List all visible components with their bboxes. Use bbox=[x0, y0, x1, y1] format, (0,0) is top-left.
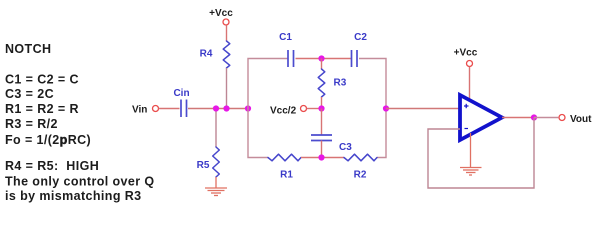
wire +Vcc to R4 bbox=[226, 25, 228, 41]
node feedback junction bbox=[531, 114, 537, 120]
wire C1 to node A bbox=[296, 58, 352, 60]
svg-text:C1: C1 bbox=[279, 32, 292, 43]
svg-text:Cin: Cin bbox=[173, 88, 189, 99]
wire right edge lower bbox=[377, 109, 386, 158]
ground (R5) bbox=[205, 188, 227, 196]
svg-text:R4: R4 bbox=[200, 49, 213, 60]
wire node A to R3 bbox=[321, 59, 323, 70]
wire C3 to node B bbox=[321, 141, 323, 158]
svg-text:The only control over Q: The only control over Q bbox=[5, 175, 155, 189]
wire R4 to node bbox=[226, 68, 228, 109]
svg-text:is by mismatching R3: is by mismatching R3 bbox=[5, 189, 142, 203]
svg-text:R1: R1 bbox=[280, 169, 293, 180]
svg-text:NOTCH: NOTCH bbox=[5, 42, 51, 56]
svg-text:C3 = 2C: C3 = 2C bbox=[5, 87, 54, 101]
svg-text:R5: R5 bbox=[197, 160, 210, 171]
resistor R2 bbox=[344, 154, 377, 161]
terminal Vout bbox=[559, 115, 565, 121]
resistor R4 bbox=[223, 41, 230, 68]
node junction at twin-T left bbox=[245, 105, 251, 111]
wire node to Vout bbox=[534, 117, 558, 119]
op-amp plus input mark bbox=[464, 104, 469, 108]
svg-text:R3 = R/2: R3 = R/2 bbox=[5, 117, 58, 131]
svg-text:Vout: Vout bbox=[570, 114, 592, 125]
terminal +Vcc (R4) bbox=[223, 19, 229, 25]
wire twin-T left edge bbox=[248, 59, 288, 109]
svg-text:R4 = R5: HIGH: R4 = R5: HIGH bbox=[5, 159, 99, 173]
wire Vin to Cin bbox=[159, 108, 180, 110]
capacitor C1 bbox=[288, 50, 294, 67]
capacitor C2 bbox=[352, 50, 358, 67]
node junction at R5 bbox=[213, 105, 219, 111]
wire +Vcc to op-amp top bbox=[469, 67, 471, 100]
wire R5 drop bbox=[215, 109, 217, 148]
svg-text:Fo = 1/(2pRC): Fo = 1/(2pRC) bbox=[5, 133, 91, 147]
op-amp minus input mark bbox=[465, 128, 469, 130]
wire op-amp output bbox=[502, 117, 534, 119]
node junction at R4 bbox=[223, 105, 229, 111]
ground (op-amp) bbox=[460, 168, 482, 176]
svg-text:R3: R3 bbox=[334, 78, 347, 89]
terminal Vin bbox=[153, 106, 159, 112]
wire output node to op-amp bbox=[386, 108, 460, 110]
node B junction R1-R2 bbox=[318, 154, 324, 160]
resistor R1 bbox=[268, 154, 301, 161]
svg-text:Vin: Vin bbox=[132, 104, 147, 115]
wire Vcc/2 node to C3 bbox=[321, 109, 323, 136]
svg-text:R1 = R2 = R: R1 = R2 = R bbox=[5, 102, 79, 116]
wire R5 to ground bbox=[215, 177, 217, 188]
svg-text:+Vcc: +Vcc bbox=[454, 47, 478, 58]
wire Cin to node bbox=[188, 108, 248, 110]
wire R1 to node B bbox=[301, 157, 344, 159]
svg-text:Vcc/2: Vcc/2 bbox=[270, 105, 297, 116]
node A junction C1-C2 bbox=[318, 55, 324, 61]
capacitor Cin bbox=[181, 100, 187, 118]
wire feedback loop bbox=[428, 118, 534, 189]
op-amp U1 bbox=[460, 95, 502, 140]
wire Vcc/2 to node bbox=[307, 108, 322, 110]
svg-text:C3: C3 bbox=[339, 142, 352, 153]
resistor R3 bbox=[318, 69, 325, 97]
terminal +Vcc (op-amp) bbox=[467, 61, 473, 67]
wire twin-T left edge lower bbox=[248, 109, 268, 158]
resistor R5 bbox=[213, 147, 220, 177]
svg-text:C1 = C2 = C: C1 = C2 = C bbox=[5, 73, 79, 87]
wire R3 to Vcc/2 node bbox=[321, 97, 323, 109]
node junction Vcc/2 bbox=[318, 105, 324, 111]
svg-text:+Vcc: +Vcc bbox=[209, 8, 233, 19]
svg-text:R2: R2 bbox=[354, 169, 367, 180]
wire op-amp to ground bbox=[470, 133, 472, 167]
node output junction bbox=[383, 105, 389, 111]
capacitor C3 bbox=[311, 135, 332, 141]
svg-text:C2: C2 bbox=[354, 32, 367, 43]
terminal Vcc/2 bbox=[301, 106, 307, 112]
wire C2 to right edge bbox=[359, 59, 386, 109]
